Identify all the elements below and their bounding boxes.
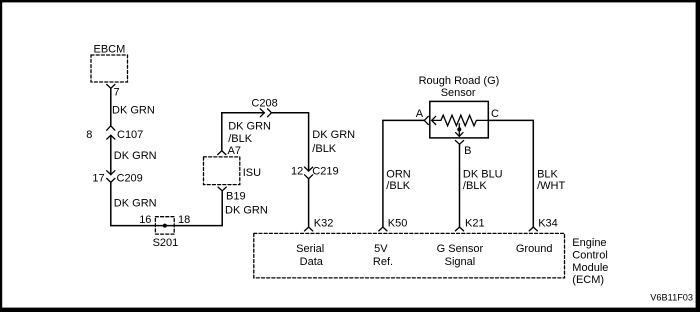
svg-text:DK GRN: DK GRN	[228, 121, 271, 133]
svg-text:DK GRN: DK GRN	[114, 150, 157, 162]
svg-text:G Sensor: G Sensor	[437, 243, 484, 255]
svg-text:K21: K21	[465, 217, 485, 229]
terminal K50	[379, 227, 387, 231]
svg-text:7: 7	[114, 86, 120, 98]
svg-text:Serial: Serial	[296, 243, 324, 255]
svg-text:12: 12	[291, 165, 303, 177]
svg-text:17: 17	[92, 172, 104, 184]
potentiometer wiper arrow	[456, 124, 463, 137]
svg-text:B19: B19	[226, 191, 246, 203]
EBCM U-EBCM	[91, 55, 128, 82]
svg-text:DK GRN: DK GRN	[112, 105, 155, 117]
wire G sensor signal: B to ECM K21	[459, 144, 461, 227]
svg-text:K50: K50	[388, 217, 408, 229]
pin 7 terminal	[107, 84, 115, 88]
wire 5V ref: sensor A to ECM K50	[383, 120, 424, 227]
terminal K34	[529, 227, 537, 231]
svg-text:Signal: Signal	[445, 256, 476, 268]
svg-text:K32: K32	[314, 217, 334, 229]
svg-text:C107: C107	[117, 129, 143, 141]
terminal B	[455, 141, 463, 145]
svg-text:B: B	[464, 145, 471, 157]
svg-text:K34: K34	[538, 217, 558, 229]
resistor element R (potentiometer track)	[441, 115, 488, 126]
wire C209 to S201 junction and to ISU B19	[111, 182, 222, 225]
terminal A male arrow inside sensor	[432, 116, 441, 124]
svg-text:/WHT: /WHT	[537, 180, 565, 192]
svg-text:Module: Module	[572, 262, 608, 274]
terminal K32	[305, 227, 313, 231]
svg-text:Data: Data	[300, 256, 324, 268]
wire ground: sensor C to ECM K34	[488, 120, 533, 227]
svg-text:DK GRN: DK GRN	[312, 129, 355, 141]
svg-text:/BLK: /BLK	[386, 180, 411, 192]
connector C107 pin 8	[107, 126, 115, 139]
svg-text:16: 16	[139, 214, 151, 226]
svg-text:Engine: Engine	[572, 237, 606, 249]
svg-text:EBCM: EBCM	[94, 43, 126, 55]
terminal B19	[218, 187, 226, 191]
svg-text:ORN: ORN	[386, 168, 411, 180]
svg-text:Sensor: Sensor	[441, 87, 476, 99]
svg-text:5V: 5V	[374, 243, 388, 255]
svg-text:18: 18	[178, 214, 190, 226]
wire C219 to ECM K32	[308, 179, 310, 227]
svg-text:BLK: BLK	[537, 168, 558, 180]
svg-text:Ground: Ground	[516, 243, 553, 255]
terminal A7	[218, 151, 226, 155]
svg-text:DK BLU: DK BLU	[463, 168, 503, 180]
ISU U-ISU	[204, 157, 240, 185]
svg-text:S201: S201	[153, 237, 179, 249]
svg-text:A: A	[416, 108, 424, 120]
svg-text:A7: A7	[228, 145, 241, 157]
svg-text:V6B11F03: V6B11F03	[650, 292, 693, 302]
svg-text:ISU: ISU	[243, 167, 261, 179]
svg-text:Control: Control	[572, 250, 607, 262]
terminal K21	[455, 227, 463, 231]
splice S201	[155, 217, 174, 234]
svg-text:8: 8	[86, 129, 92, 141]
svg-text:/BLK: /BLK	[228, 133, 253, 145]
svg-text:/BLK: /BLK	[312, 143, 337, 155]
junction dot S201	[163, 224, 167, 228]
svg-text:C208: C208	[251, 97, 277, 109]
svg-text:Rough Road (G): Rough Road (G)	[419, 75, 500, 87]
terminal A (female)	[424, 116, 428, 124]
wire C208 to C219	[272, 113, 309, 171]
svg-text:C219: C219	[312, 165, 338, 177]
wire C107 to C209	[110, 135, 112, 174]
svg-text:C: C	[491, 108, 499, 120]
wire A7 up to C208 run	[222, 113, 264, 151]
connector C209 pin 17	[107, 171, 115, 183]
svg-text:(ECM): (ECM)	[572, 274, 604, 286]
connector C208	[260, 109, 271, 117]
svg-text:DK GRN: DK GRN	[225, 205, 268, 217]
connector C219 pin 12	[305, 167, 313, 179]
wire EBCM pin7 to C107	[110, 88, 112, 126]
svg-text:Ref.: Ref.	[373, 256, 393, 268]
ECM U-ECM	[254, 233, 565, 278]
svg-text:/BLK: /BLK	[463, 180, 488, 192]
Rough Road (G) Sensor case	[430, 101, 489, 137]
svg-text:DK GRN: DK GRN	[114, 198, 157, 210]
svg-text:C209: C209	[117, 172, 143, 184]
